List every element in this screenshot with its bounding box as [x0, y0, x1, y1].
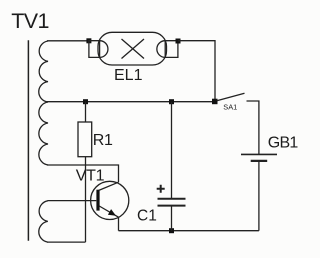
- capacitor C1 top plate: [158, 198, 186, 200]
- svg-text:GB1: GB1: [268, 135, 299, 152]
- transistor VT1 circle: [91, 181, 129, 219]
- wire: switch right to battery top: [247, 101, 259, 154]
- resistor R1 body: [78, 122, 92, 157]
- wire: W2 bottom to collector: [47, 165, 119, 182]
- wire: supply rail y=101.7: [47, 101, 213, 103]
- node: R1 top junction dot: [83, 99, 88, 104]
- wire: W1 top to lamp left: [47, 40, 89, 42]
- lamp EL1 envelope: [98, 32, 167, 65]
- svg-text:SA1: SA1: [223, 103, 237, 112]
- node: lamp left junction dot: [86, 38, 91, 43]
- lamp EL1 cross mark: [122, 39, 145, 59]
- battery GB1 positive plate: [241, 153, 277, 155]
- svg-text:TV1: TV1: [11, 9, 49, 33]
- lamp EL1 left lead bracket: [89, 41, 100, 58]
- winding W1 (top): [39, 41, 48, 102]
- wire: battery bottom to ground: [258, 161, 260, 231]
- wire: rail to C1 top plate: [171, 102, 173, 199]
- transistor VT1 emitter stroke: [99, 206, 118, 217]
- svg-text:R1: R1: [93, 132, 113, 149]
- node: C1 top junction dot: [169, 99, 174, 104]
- svg-text:VT1: VT1: [76, 168, 105, 185]
- wire: bottom wire to W3 bottom: [47, 241, 86, 243]
- wire: rail to R1 top: [85, 102, 87, 122]
- transformer core: [27, 40, 29, 241]
- svg-text:EL1: EL1: [114, 67, 143, 84]
- wire: lamp right to switch: [178, 41, 215, 99]
- transistor VT1 base bar: [96, 190, 99, 211]
- wire: ground rail: [119, 230, 259, 232]
- wire: emitter down: [118, 217, 120, 231]
- winding W3 (feedback, bottom): [39, 201, 48, 242]
- svg-text:C1: C1: [137, 208, 157, 225]
- node: lamp right junction dot: [176, 39, 181, 44]
- battery GB1 negative plate: [251, 160, 268, 162]
- transistor VT1 emitter arrow: [108, 209, 116, 216]
- wire: R1 bottom down: [85, 157, 87, 242]
- switch SA1 blade: [217, 93, 245, 101]
- lamp EL1 right lead bracket: [165, 41, 178, 58]
- capacitor C1 bottom plate: [158, 205, 186, 207]
- winding W2 (middle): [39, 102, 48, 165]
- wire: C1 bottom plate to ground: [171, 206, 173, 231]
- transistor VT1 collector stroke: [99, 182, 119, 190]
- lamp EL1 left electrode: [100, 41, 108, 58]
- lamp EL1 right electrode: [157, 41, 165, 58]
- capacitor C1 plus sign: [157, 185, 165, 193]
- node: C1 bottom junction dot: [169, 228, 174, 233]
- wire: W3 top to base: [48, 200, 97, 202]
- switch SA1 left contact: [212, 99, 218, 105]
